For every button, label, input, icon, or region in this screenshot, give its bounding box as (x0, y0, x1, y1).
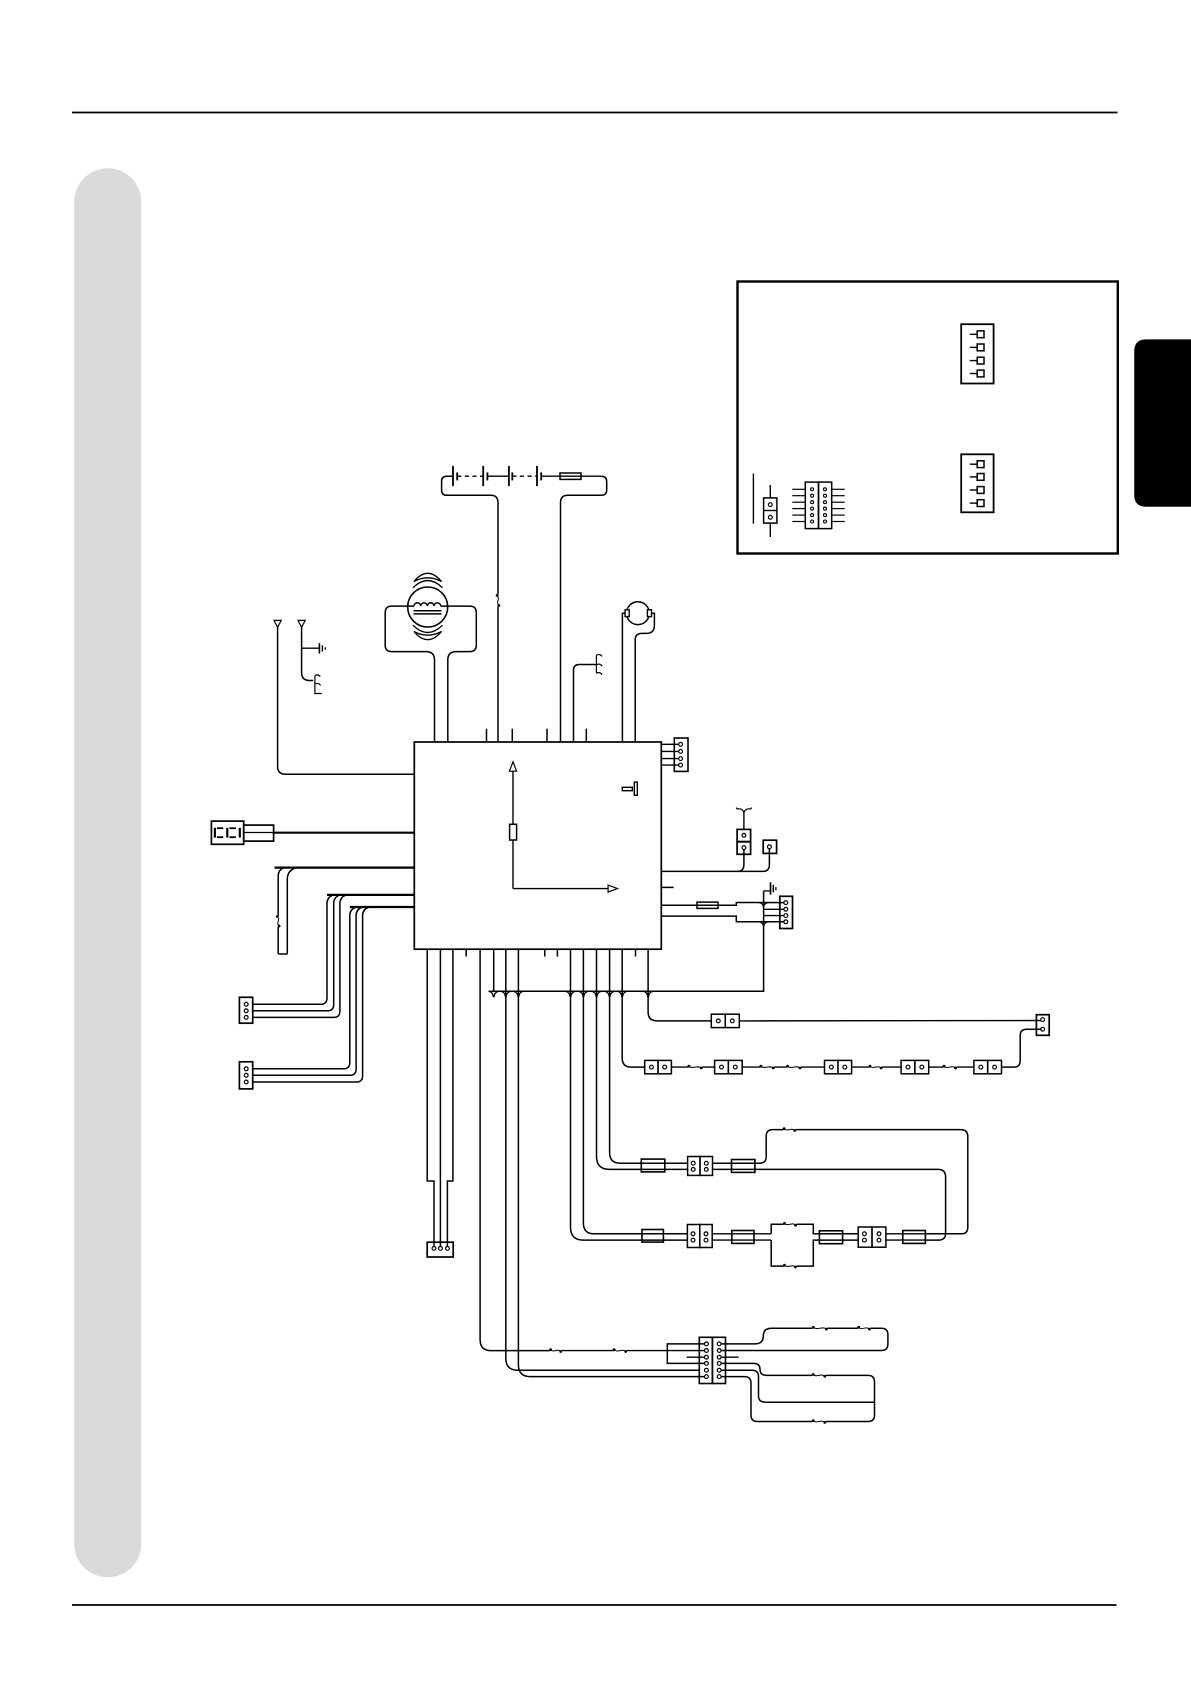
wire break at antenna 2 end (315, 675, 322, 694)
wire break long b (613, 1348, 627, 1353)
wire break loop L2 top (812, 1373, 826, 1378)
connector CN8 (3-pin) (427, 1242, 453, 1257)
wire break row A upper (783, 1127, 796, 1132)
wire row 2 seg d (774, 1066, 786, 1068)
wire break long a (549, 1348, 562, 1353)
motor M harness tube left part (385, 606, 434, 742)
ECU right stub (661, 886, 673, 888)
wire row 2 seg g (882, 1066, 901, 1068)
wire CN1 to ECU (274, 832, 415, 834)
wire break on left battery drop (496, 594, 501, 607)
wire break row 2 b (760, 1065, 775, 1070)
connector CN6 (1-pin) (763, 840, 776, 853)
wire dashed battery link 1 (457, 475, 483, 477)
wire CN19 row3 stub left (687, 1356, 706, 1358)
component bulge bottom outline (771, 1240, 858, 1266)
wire row 2 seg b (702, 1066, 714, 1068)
connector pair CN11 (645, 1060, 672, 1073)
battery B3 plates (508, 466, 510, 486)
page top rule (72, 112, 1118, 114)
wire loop harness L2 right (826, 1375, 875, 1421)
wire break bulge top (783, 1222, 797, 1227)
wire CN18 to fuse F7 bottom (886, 1239, 926, 1241)
wire row A bottom run (713, 1169, 946, 1240)
ECU internal component bar on arrow (510, 824, 517, 840)
wire antenna 2 stem (302, 627, 314, 680)
wire CN6 stem to wire (763, 849, 770, 872)
wire long run seg (562, 1350, 613, 1352)
wire row 2 seg a (671, 1066, 688, 1068)
connector pair CN15 (974, 1060, 1002, 1073)
wire row B to bulge top (712, 1233, 771, 1235)
connector CN19 (12-pin block) (699, 1337, 725, 1383)
connector CN3 (3-pin) (239, 1062, 252, 1089)
wire ECU to CN19 row5 (506, 949, 700, 1370)
wire ground bus vertical + harness bus to ECU underside (489, 891, 763, 991)
fuse F6 (819, 1231, 842, 1244)
wire row 2 seg i (957, 1066, 974, 1068)
motor M body circle (408, 587, 448, 627)
connector CN4 (4-pin, ECU top right) (661, 738, 688, 771)
right edge black chapter tab (1134, 339, 1191, 506)
wire loop harness L1 (721, 1328, 888, 1350)
battery B2 plates (482, 466, 484, 486)
wire row 2 seg h (929, 1066, 943, 1068)
wire CN19 row3 stub right (721, 1356, 738, 1358)
ECU control-unit box (414, 742, 661, 949)
connector pair CN9 (711, 1014, 739, 1027)
wire loop harness L2 lower-left (721, 1377, 812, 1422)
wire row A top to step-up (713, 1130, 784, 1164)
wire dashed battery link 2 (512, 475, 537, 477)
wire long run to CN19 (627, 1350, 706, 1352)
wire 3-branch set 2 to ECU (350, 906, 415, 908)
bus junction fillets (489, 991, 499, 997)
ground G1 (chassis) (318, 643, 320, 653)
antenna symbol 3 (curly) (736, 808, 743, 814)
wire battery to fuse (541, 475, 601, 477)
wire antenna 2 ground branch (302, 647, 319, 649)
fuse F7 (903, 1231, 926, 1244)
component bulge top outline (771, 1224, 858, 1234)
wire left battery drop lower (497, 607, 499, 743)
wire battery mid link (487, 475, 509, 477)
wire fuse to right harness edge + right battery drop (561, 476, 607, 742)
sub-connector bracket at CN19 (667, 1344, 705, 1364)
wire row A upper long run (796, 1130, 968, 1234)
wire break on stub tube (276, 915, 281, 927)
fuse F1 (697, 902, 718, 908)
ECU bottom pin ticks (465, 949, 467, 956)
motor M upper brush band (414, 573, 442, 581)
connector CN1 (display unit) (211, 821, 273, 844)
connector block CN16 (2x2) (688, 1157, 713, 1176)
inset wire stub (752, 474, 754, 524)
wire ECU to CN8 pin1 (427, 949, 434, 1248)
battery B4 plates (536, 466, 538, 486)
wire row B to bulge bottom (712, 1239, 771, 1241)
wire row 2 up to CN10 (1002, 1029, 1042, 1067)
inset detail box frame (738, 282, 1118, 554)
wire row 1 long run (739, 1020, 1041, 1022)
fuse F2 (641, 1159, 665, 1172)
wire ECU to CN8 pin2 (439, 949, 441, 1248)
wire row 2 seg c (742, 1066, 760, 1068)
wire antenna 1 to ECU (278, 627, 415, 774)
wire ECU to row A bottom (597, 949, 688, 1169)
wire loop harness L2 upper (721, 1363, 812, 1375)
wire ECU to small connectors (right) (661, 870, 763, 872)
page bottom rule (72, 1604, 1117, 1606)
wire break row 2 e (943, 1065, 957, 1070)
wire ECU pin to CN7 pin4 (661, 916, 784, 922)
connector CN-A (4-pin, inset top right) (961, 324, 993, 383)
wire break loop L1 a (812, 1326, 828, 1331)
connector CN7 (4-pin) (780, 896, 793, 928)
wire ECU to CN8 pin3 (447, 949, 453, 1248)
fuse F4 (642, 1230, 663, 1243)
torn wire mark (596, 655, 602, 675)
wire loop harness L2 middle (721, 1370, 874, 1402)
ECU internal jumper bars (622, 787, 632, 790)
motor M lower brush band (414, 632, 442, 640)
battery B1 plates (452, 466, 454, 486)
wire ECU to row B bottom (571, 949, 688, 1240)
wire CN7 pin3 (764, 915, 785, 917)
connector CN2 (3-pin) (239, 997, 252, 1023)
connector pair CN13 (825, 1060, 852, 1073)
wire harness stub tube (open pair) (275, 866, 415, 868)
wire break loop L2 bottom (812, 1419, 826, 1424)
wire ECU top stub with torn end (574, 665, 597, 743)
wire ECU to CN19 row2 (480, 949, 549, 1350)
connector pair CN12 (715, 1060, 743, 1073)
horn H body (625, 602, 651, 625)
connector pair CN14 (901, 1060, 929, 1073)
wire break bulge bottom (783, 1264, 797, 1269)
wire CN7 pin2 (764, 908, 785, 910)
connector block CN18 (2x2) (858, 1227, 886, 1247)
antenna symbol 2 (298, 620, 305, 627)
wire break row 2 a (688, 1065, 703, 1070)
wire row 2 seg f (852, 1066, 869, 1068)
motor M armature lines (414, 610, 442, 612)
wire CN5 stem to wire (737, 850, 744, 872)
ECU internal horizontal arrow (513, 888, 609, 890)
motor M coil (414, 603, 441, 606)
wire CN18 to fuse F7 top (886, 1233, 926, 1235)
wire 3-branch set 1 to ECU (327, 894, 414, 896)
junction fillets on ground vertical (759, 903, 769, 908)
fuse F5 (732, 1231, 754, 1244)
connector CN-B (4-pin, inset bottom right) (961, 454, 993, 512)
wire ECU to row B top (583, 949, 687, 1234)
connector CN-D (12-pin block, inset) (792, 482, 844, 528)
antenna symbol 1 (274, 620, 281, 627)
wire ECU to switch row 1 (648, 949, 711, 1021)
connector block CN17 (2x2) (687, 1225, 712, 1248)
wire ECU to switch row 2 (622, 949, 645, 1067)
connector CN-C (2-pin, inset) (764, 485, 777, 537)
wire row 2 seg e (801, 1066, 825, 1068)
fuse F3 (732, 1160, 755, 1173)
ECU top pin ticks (486, 729, 488, 742)
wire break row 2 d (869, 1065, 883, 1070)
connector CN10 (2-pin, right edge) (1036, 1015, 1049, 1036)
wire ECU pin to CN7 pin1 (fused) (661, 903, 784, 906)
wire break loop L1 b (857, 1326, 871, 1331)
wire break row 2 c (786, 1065, 801, 1070)
left gray sidebar (74, 168, 141, 1577)
wire ECU to row A top (610, 949, 688, 1163)
ECU internal vertical arrow (512, 771, 514, 889)
fuse F0 (main fuse) (560, 473, 581, 479)
motor M harness tube right part (441, 606, 477, 742)
wire horn left terminal to ECU (622, 613, 625, 742)
wire ECU to CN19 row6 (518, 949, 705, 1376)
connector CN5 (2-pin vertical) (737, 814, 751, 855)
ground G2 (chassis) (764, 890, 770, 892)
wire battery row left end + left harness edge (442, 476, 498, 594)
wire horn right terminal to ECU (635, 613, 654, 742)
